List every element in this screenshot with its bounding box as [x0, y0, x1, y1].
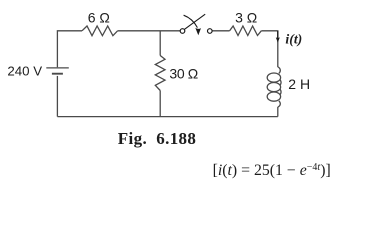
inductor loop 1: [267, 73, 280, 82]
current arrow i(t) shaft: [277, 31, 279, 39]
switch SW blade: [185, 14, 206, 29]
switch SW closing arrowhead: [195, 28, 201, 36]
battery source V1 240V long plate: [46, 67, 69, 69]
wire right-bottom: [277, 107, 279, 117]
resistor R 6ohm: [82, 26, 118, 36]
wire left-bottom: [56, 76, 58, 117]
inductor loop 2: [267, 83, 280, 92]
switch SW left terminal: [180, 29, 185, 34]
wire top-middle: [118, 30, 181, 32]
svg-text:i(t): i(t): [285, 32, 302, 48]
battery source V1 240V short plate: [52, 73, 63, 75]
wire switch-to-R3: [212, 30, 230, 32]
svg-text:Fig. 6.188: Fig. 6.188: [118, 129, 196, 148]
wire top-right corner: [261, 31, 278, 67]
inductor connector 1: [279, 80, 282, 85]
resistor R 30ohm: [155, 56, 165, 91]
svg-text:240 V: 240 V: [7, 64, 42, 79]
svg-text:6 Ω: 6 Ω: [88, 9, 110, 25]
svg-text:30 Ω: 30 Ω: [169, 65, 198, 81]
inductor loop 3: [267, 92, 280, 101]
wire top-left: [57, 31, 82, 68]
current arrow i(t) head: [276, 37, 280, 42]
inductor exit: [278, 101, 281, 107]
svg-text:[i(t) = 25(1 − e−4t)]: [i(t) = 25(1 − e−4t)]: [213, 162, 331, 179]
svg-text:3 Ω: 3 Ω: [235, 9, 257, 25]
switch SW closing arc: [184, 15, 198, 27]
inductor connector 2: [279, 89, 282, 94]
wire bottom: [57, 116, 277, 118]
wire middle bottom: [159, 91, 161, 117]
node branch middle wire top: [159, 31, 161, 56]
inductor L 2H entry: [278, 67, 281, 74]
switch SW right terminal: [208, 29, 213, 34]
resistor R 3ohm: [230, 26, 262, 36]
svg-text:2 H: 2 H: [288, 76, 310, 92]
